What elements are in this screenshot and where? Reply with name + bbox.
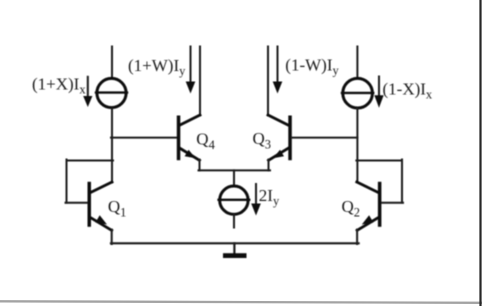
wire Q1 emitter down [111,230,113,245]
wire Q3 collector column [267,47,269,116]
transistor Q4 collector lead [180,115,201,125]
arrow for (1+X)Ix current [83,77,92,107]
arrow for (1-X)Ix current [374,77,383,108]
svg-text:(1+X)Ix: (1+X)Ix [32,75,86,97]
wire Q1 base [66,202,88,204]
transistor Q1 collector lead [90,182,112,193]
wire Q2 diode loop right [401,160,403,203]
wire Q4 base to left column [111,137,177,139]
svg-text:Q2: Q2 [342,197,361,220]
page edge right [479,0,481,306]
current source S1 (1+X)Ix circle [96,78,127,107]
current source S2 (1-X)Ix circle [342,78,373,108]
transistor Q3 collector lead [268,115,289,125]
wire 2Iy source bottom stub [233,215,235,227]
wire Q1 diode loop left [66,160,68,203]
wire Q3 emitter down [268,160,270,171]
arrow for (1+W)Iy current [186,47,196,94]
transistor Q2 emitter lead with arrow [357,215,379,230]
svg-text:Q3: Q3 [253,129,272,152]
transistor Q2 collector lead [357,182,379,193]
wire Q1 diode loop top [67,160,114,162]
transistor Q1 emitter lead with arrow [90,215,112,230]
svg-text:(1-X)Ix: (1-X)Ix [383,80,433,102]
transistor Q1 base bar [88,182,92,227]
wire bottom rail [111,242,359,244]
transistor Q4 base bar [177,116,181,161]
page rule bottom [0,301,482,303]
wire right column middle [356,109,358,183]
wire tail stub to 2Iy source [233,170,235,185]
wire left column middle [111,109,113,183]
wire right column top stub [356,47,358,79]
svg-text:Q1: Q1 [108,197,127,220]
wire Q3 base to right column [292,137,358,139]
transistor Q4 emitter lead with arrow [180,148,200,160]
wire Q2 emitter down [356,230,358,245]
ground [223,243,247,258]
svg-text:(1-W)Iy: (1-W)Iy [285,55,339,77]
svg-text:2Iy: 2Iy [259,186,280,208]
wire Q2 base [381,202,403,204]
wire Q2 diode loop top [356,160,402,162]
wire Q4 collector column [199,47,201,116]
wire emitter join [199,169,271,171]
wire left column top stub [111,47,113,79]
wire Q4 emitter down [199,160,201,171]
transistor Q3 emitter lead with arrow [269,148,289,160]
svg-text:(1+W)Iy: (1+W)Iy [128,56,186,78]
transistor Q3 base bar [288,116,292,161]
arrow for (1-W)Iy current [273,47,283,94]
current source S3 2Iy circle [219,186,250,214]
arrow for 2Iy current [251,184,261,216]
svg-text:Q4: Q4 [196,129,215,152]
transistor Q2 base bar [378,182,382,227]
